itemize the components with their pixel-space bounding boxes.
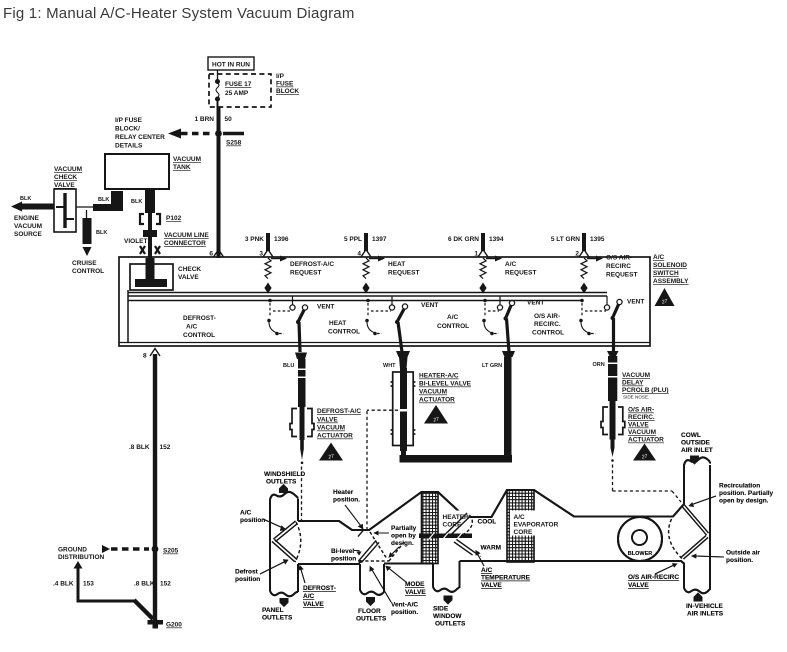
svg-text:VACUUM: VACUUM — [14, 223, 42, 230]
heater position label — [333, 489, 360, 504]
vacuum rails — [128, 292, 607, 294]
svg-text:SWITCH: SWITCH — [653, 270, 679, 277]
svg-text:A/C: A/C — [240, 510, 252, 517]
svg-text:6: 6 — [209, 251, 213, 258]
svg-text:VACUUM: VACUUM — [419, 389, 447, 396]
bi-level position label — [331, 548, 356, 563]
svg-text:ASSEMBLY: ASSEMBLY — [653, 278, 689, 285]
duct main channel bottom outline — [298, 561, 684, 588]
svg-text:4: 4 — [357, 251, 361, 258]
a/c evaporator core — [507, 490, 534, 562]
vent-a/c position label — [391, 602, 418, 617]
svg-text:VACUUM LINE: VACUUM LINE — [164, 232, 209, 239]
svg-text:OUTLETS: OUTLETS — [262, 615, 293, 622]
panel outlets label — [262, 607, 293, 622]
svg-text:A/C: A/C — [186, 324, 198, 331]
svg-text:REQUEST: REQUEST — [606, 272, 637, 279]
evaporator label — [510, 511, 559, 537]
splice S205 — [152, 546, 159, 553]
svg-text:3 PNK: 3 PNK — [245, 236, 264, 243]
svg-text:VALVE: VALVE — [628, 422, 649, 429]
svg-text:BLK: BLK — [131, 199, 142, 205]
svg-text:VALVE: VALVE — [481, 582, 502, 589]
I/P fuse block label — [276, 73, 299, 95]
warning triangle (bi-level actuator) — [424, 405, 448, 424]
svg-text:DEFROST-A/C: DEFROST-A/C — [317, 408, 361, 415]
svg-text:position: position — [240, 517, 265, 524]
svg-text:SOURCE: SOURCE — [14, 231, 42, 238]
mode valve doors — [358, 530, 404, 564]
solenoid coil DEFROST-A/C REQUEST — [264, 256, 287, 294]
o/s air-recirc valve label — [628, 574, 679, 589]
svg-text:WINDOW: WINDOW — [433, 613, 462, 620]
heater core — [422, 492, 439, 564]
svg-text:2: 2 — [575, 251, 579, 258]
heater-a/c door lines — [444, 513, 473, 538]
wire 5 LT GRN 1395 — [579, 233, 589, 257]
wire check valve to rails — [127, 290, 129, 343]
svg-text:FUSE 17: FUSE 17 — [225, 81, 252, 88]
svg-text:BLK: BLK — [96, 230, 107, 236]
svg-text:BLOWER: BLOWER — [628, 551, 652, 557]
svg-text:HEAT: HEAT — [329, 320, 346, 327]
switch HEAT control — [365, 296, 407, 352]
svg-text:DEFROST-: DEFROST- — [303, 585, 336, 592]
heater core — [422, 492, 439, 564]
check valve (inside box) — [130, 258, 173, 290]
svg-text:CONNECTOR: CONNECTOR — [164, 240, 206, 247]
svg-text:CONTROL: CONTROL — [532, 330, 564, 337]
solenoid coil O/S AIR- RECIRC — [580, 256, 603, 294]
svg-text:.8 BLK: .8 BLK — [129, 444, 150, 451]
defrost-a/c valve label — [303, 585, 336, 608]
svg-text:open by: open by — [391, 533, 416, 540]
svg-text:Defrost: Defrost — [235, 569, 259, 576]
vacuum tank — [105, 154, 169, 189]
switch A/C control — [482, 296, 514, 352]
svg-text:152: 152 — [160, 444, 171, 451]
svg-text:3: 3 — [259, 251, 263, 258]
warm door lines — [454, 540, 481, 557]
svg-text:SIDE NOSE.: SIDE NOSE. — [623, 395, 649, 400]
a/c evaporator core — [507, 490, 534, 562]
svg-text:.8 BLK: .8 BLK — [134, 581, 155, 588]
duct: windshield/panel outlet pipe — [270, 492, 298, 596]
blower — [618, 517, 662, 561]
warning triangle (defrost actuator) — [319, 443, 343, 461]
hose BLU — [283, 353, 307, 408]
svg-text:CHECK: CHECK — [178, 266, 201, 273]
side window outlet pipe — [433, 561, 460, 592]
svg-text:1397: 1397 — [372, 236, 387, 243]
ground distribution arrow — [58, 545, 149, 561]
svg-text:S205: S205 — [163, 548, 179, 555]
svg-text:WARM: WARM — [481, 545, 502, 552]
engine vacuum source arrow — [11, 196, 54, 212]
svg-text:IN-VEHICLE: IN-VEHICLE — [686, 603, 724, 610]
panel outlets label — [262, 607, 293, 622]
svg-text:OUTLETS: OUTLETS — [356, 616, 387, 623]
cool / warm labels — [478, 519, 502, 552]
svg-text:position: position — [235, 576, 260, 583]
svg-text:CONTROL: CONTROL — [72, 268, 104, 275]
svg-text:HOT IN RUN: HOT IN RUN — [212, 62, 250, 69]
hose ORN — [593, 351, 619, 368]
svg-text:SOLENOID: SOLENOID — [653, 262, 687, 269]
o/s air-recirc doors — [669, 505, 709, 560]
wire .8 BLK 152 — [129, 444, 171, 451]
svg-text:AIR INLET: AIR INLET — [681, 447, 713, 454]
hose elbow to LT GRN — [400, 351, 516, 463]
switch DEFROST- control — [267, 296, 307, 352]
blower — [618, 517, 662, 561]
pentagon arrow down (panel) — [280, 598, 289, 607]
solenoid coil A/C REQUEST — [479, 256, 502, 294]
splice S258 — [215, 130, 222, 137]
svg-text:P102: P102 — [166, 215, 182, 222]
svg-text:VALVE: VALVE — [628, 582, 649, 589]
windshield outlets label — [264, 471, 305, 486]
svg-text:Outside air: Outside air — [726, 550, 760, 557]
svg-text:ORN: ORN — [593, 362, 605, 368]
svg-text:ACTUATOR: ACTUATOR — [317, 433, 353, 440]
svg-text:VENT: VENT — [627, 299, 644, 306]
cruise control branch — [83, 210, 108, 256]
warning triangle (assembly) — [655, 288, 675, 306]
svg-text:CONTROL: CONTROL — [437, 323, 469, 330]
svg-text:I/P FUSE: I/P FUSE — [115, 117, 143, 124]
svg-text:DEFROST-: DEFROST- — [183, 315, 216, 322]
svg-text:RELAY CENTER: RELAY CENTER — [115, 134, 165, 141]
svg-text:BLU: BLU — [283, 363, 294, 369]
svg-text:position. Partially: position. Partially — [719, 490, 774, 497]
pin 8 ground wire — [143, 349, 160, 621]
svg-text:VENT: VENT — [317, 304, 334, 311]
heater-a/c bi-level valve vacuum actuator — [391, 368, 416, 451]
svg-text:TANK: TANK — [173, 164, 191, 171]
svg-text:VALVE: VALVE — [54, 182, 75, 189]
recirculation position label — [719, 483, 774, 505]
svg-text:ACTUATOR: ACTUATOR — [419, 397, 455, 404]
cool / warm labels — [478, 519, 502, 552]
vacuum delay valve — [608, 356, 618, 401]
duct main channel top outline — [298, 465, 684, 531]
svg-text:RECIRC.: RECIRC. — [628, 414, 655, 421]
svg-text:VACUUM: VACUUM — [628, 429, 656, 436]
mode valve label — [405, 581, 426, 596]
svg-text:6 DK GRN: 6 DK GRN — [448, 236, 479, 243]
cowl outside air inlet label — [681, 432, 713, 454]
in-vehicle air inlets label — [686, 603, 724, 618]
svg-text:DELAY: DELAY — [622, 380, 644, 387]
defrost-a/c valve doors — [272, 521, 301, 562]
a/c position label — [240, 510, 265, 525]
svg-text:50: 50 — [225, 116, 233, 123]
vacuum check valve — [54, 189, 76, 232]
hose WHT — [383, 351, 410, 369]
wire 6 DK GRN 1394 — [478, 233, 488, 257]
I/P fuse block relay center details label — [115, 117, 165, 150]
recirculation position label — [719, 483, 774, 505]
svg-text:WHT: WHT — [383, 363, 396, 369]
svg-text:MODE: MODE — [405, 581, 425, 588]
a/c temperature valve bar — [419, 533, 472, 539]
pentagon arrow up (windshield) — [279, 484, 288, 493]
svg-text:CHECK: CHECK — [54, 174, 77, 181]
svg-text:A/C: A/C — [447, 314, 459, 321]
svg-text:BI-LEVEL VALVE: BI-LEVEL VALVE — [419, 381, 472, 388]
ground G200 — [148, 620, 183, 629]
svg-text:I/P: I/P — [276, 73, 285, 80]
wire .8 BLK 152 (lower) — [134, 581, 171, 588]
svg-text:DISTRIBUTION: DISTRIBUTION — [58, 554, 105, 561]
inner bottom rail — [119, 342, 650, 344]
svg-text:EVAPORATOR: EVAPORATOR — [514, 522, 559, 529]
svg-text:ACTUATOR: ACTUATOR — [628, 437, 664, 444]
dashed link bi-level to mode valve — [367, 410, 398, 533]
svg-text:BLK: BLK — [20, 196, 31, 202]
partially open by design label — [391, 525, 417, 547]
o/s air-recirc doors — [669, 505, 709, 560]
svg-text:SIDE: SIDE — [433, 606, 449, 613]
wire 1 BRN 50 — [217, 107, 221, 258]
connector P102 — [140, 214, 160, 237]
solenoid coil HEAT REQUEST — [362, 256, 385, 294]
o/s air-recirc valve label — [628, 574, 679, 589]
dashed arrow to relay center — [168, 129, 244, 139]
svg-text:FLOOR: FLOOR — [358, 608, 381, 615]
svg-text:.4 BLK: .4 BLK — [53, 581, 74, 588]
bi-level position label — [331, 548, 356, 563]
a/c temperature valve label — [481, 567, 531, 589]
in-vehicle air inlet pipe (right) — [684, 457, 710, 593]
svg-text:O/S AIR-: O/S AIR- — [606, 255, 632, 262]
svg-text:design.: design. — [391, 540, 414, 547]
defrost-a/c valve vacuum actuator — [290, 407, 314, 464]
wire 3 PNK 1396 — [263, 233, 273, 257]
svg-text:VACUUM: VACUUM — [317, 425, 345, 432]
duct: windshield/panel outlet pipe — [270, 492, 298, 596]
a/c position label — [240, 510, 265, 525]
svg-text:position: position — [331, 556, 356, 563]
floor outlet pipe — [360, 564, 384, 595]
svg-text:OUTLETS: OUTLETS — [266, 479, 297, 486]
heater-a/c door lines — [444, 513, 473, 538]
svg-text:Recirculation: Recirculation — [719, 483, 760, 490]
hot in run box — [208, 57, 254, 70]
svg-text:BLK: BLK — [98, 197, 109, 203]
svg-text:153: 153 — [83, 581, 94, 588]
defrost-a/c valve doors — [272, 521, 301, 562]
svg-text:position.: position. — [726, 557, 753, 564]
svg-text:OUTLETS: OUTLETS — [435, 621, 466, 628]
svg-text:A/C: A/C — [303, 593, 315, 600]
svg-text:DETAILS: DETAILS — [115, 143, 143, 150]
svg-text:RECIRC: RECIRC — [606, 263, 631, 270]
svg-text:position.: position. — [391, 609, 418, 616]
pentagon arrow down (panel) — [280, 598, 289, 607]
svg-text:CONTROL: CONTROL — [328, 329, 360, 336]
svg-text:REQUEST: REQUEST — [505, 270, 536, 277]
svg-text:O/S AIR-: O/S AIR- — [534, 313, 560, 320]
cowl outside air inlet label — [681, 432, 713, 454]
svg-text:TEMPERATURE: TEMPERATURE — [481, 575, 531, 582]
svg-text:AIR INLETS: AIR INLETS — [687, 611, 724, 618]
svg-text:1396: 1396 — [274, 236, 289, 243]
duct main channel bottom outline — [298, 561, 684, 588]
outside air position label — [726, 550, 760, 565]
svg-text:VALVE: VALVE — [405, 589, 426, 596]
heater position label — [333, 489, 360, 504]
mode valve label — [405, 581, 426, 596]
svg-text:8: 8 — [143, 353, 147, 360]
pin 6 BRN — [214, 250, 224, 258]
svg-text:Bi-level: Bi-level — [331, 548, 354, 555]
o/s air-recirc valve vacuum actuator — [601, 401, 625, 462]
svg-text:LT GRN: LT GRN — [482, 363, 502, 369]
outside air position label — [726, 550, 760, 565]
svg-text:5 LT GRN: 5 LT GRN — [551, 236, 580, 243]
vent-a/c position label — [391, 602, 418, 617]
warm door lines — [454, 540, 481, 557]
svg-text:open by design.: open by design. — [719, 498, 769, 505]
wire 5 PPL 1397 — [361, 233, 371, 257]
assembly label — [653, 254, 689, 285]
svg-text:S258: S258 — [226, 140, 242, 147]
svg-text:CONTROL: CONTROL — [183, 332, 215, 339]
svg-text:RECIRC.: RECIRC. — [534, 321, 561, 328]
fuse F17 25A — [216, 70, 220, 107]
side window outlet pipe — [433, 561, 460, 592]
svg-text:COWL: COWL — [681, 432, 701, 439]
svg-text:PCROLB (PLU): PCROLB (PLU) — [622, 387, 669, 394]
svg-text:DEFROST-A/C: DEFROST-A/C — [290, 261, 334, 268]
duct main channel top outline — [298, 465, 684, 531]
fuse value label — [225, 81, 252, 97]
svg-text:COOL: COOL — [478, 519, 497, 526]
in-vehicle air inlets label — [686, 603, 724, 618]
svg-text:HEAT: HEAT — [388, 261, 405, 268]
partially open by design label — [391, 525, 417, 547]
svg-text:A/C: A/C — [653, 254, 665, 261]
svg-text:CRUISE: CRUISE — [72, 260, 97, 267]
svg-text:VACUUM: VACUUM — [622, 372, 650, 379]
svg-text:A/C: A/C — [514, 514, 526, 521]
A/C solenoid switch assembly box — [119, 257, 650, 346]
a/c temperature valve label — [481, 567, 531, 589]
tank output wire BLK — [131, 189, 155, 258]
svg-text:Partially: Partially — [391, 525, 417, 532]
svg-text:VENT: VENT — [421, 302, 438, 309]
svg-text:1: 1 — [474, 251, 478, 258]
a/c temperature valve bar — [419, 533, 472, 539]
svg-text:O/S AIR-: O/S AIR- — [628, 407, 654, 414]
svg-text:G200: G200 — [166, 622, 182, 629]
heater core label — [441, 511, 470, 529]
svg-text:OUTSIDE: OUTSIDE — [681, 440, 711, 447]
svg-text:VALVE: VALVE — [178, 274, 199, 281]
svg-text:VACUUM: VACUUM — [173, 156, 201, 163]
svg-text:A/C: A/C — [505, 261, 517, 268]
svg-text:A/C: A/C — [481, 567, 493, 574]
svg-text:VALVE: VALVE — [303, 601, 324, 608]
svg-text:Heater: Heater — [333, 489, 354, 496]
floor outlet pipe — [360, 564, 384, 595]
svg-text:1394: 1394 — [489, 236, 504, 243]
branch wire .4 BLK 153 — [74, 561, 154, 619]
dashed link recirc actuator to duct — [613, 465, 682, 503]
defrost-a/c valve label — [303, 585, 336, 608]
svg-text:BLOCK/: BLOCK/ — [115, 126, 140, 133]
svg-text:position.: position. — [333, 497, 360, 504]
svg-text:VALVE: VALVE — [317, 417, 338, 424]
pentagon arrow up (windshield) — [279, 484, 288, 493]
svg-text:25 AMP: 25 AMP — [225, 90, 249, 97]
defrost position label — [235, 569, 260, 584]
dashed link to duct — [301, 467, 303, 521]
svg-text:1 BRN: 1 BRN — [194, 116, 214, 123]
vacuum line connector — [140, 246, 160, 254]
svg-text:REQUEST: REQUEST — [290, 270, 321, 277]
svg-text:FUSE: FUSE — [276, 81, 294, 88]
defrost position label — [235, 569, 260, 584]
switch O/S AIR- control — [579, 296, 622, 352]
svg-text:5 PPL: 5 PPL — [344, 236, 362, 243]
svg-text:PANEL: PANEL — [262, 607, 284, 614]
wire check valve to tank elbow — [76, 191, 123, 211]
heater core label — [441, 511, 470, 529]
svg-text:CORE: CORE — [514, 529, 533, 536]
svg-text:WINDSHIELD: WINDSHIELD — [264, 471, 305, 478]
svg-text:VACUUM: VACUUM — [54, 166, 82, 173]
svg-text:HEATER-A/C: HEATER-A/C — [419, 373, 459, 380]
warning triangle (recirc actuator) — [633, 444, 656, 461]
windshield outlets label — [264, 471, 305, 486]
svg-text:ENGINE: ENGINE — [14, 215, 40, 222]
svg-text:152: 152 — [160, 581, 171, 588]
svg-text:BLOCK: BLOCK — [276, 88, 299, 95]
in-vehicle air inlet pipe (right) — [684, 457, 710, 593]
svg-text:Vent-A/C: Vent-A/C — [391, 602, 418, 609]
fuse block dashed box — [209, 74, 271, 107]
evaporator label — [510, 511, 559, 537]
svg-text:1395: 1395 — [590, 236, 605, 243]
svg-text:VENT: VENT — [527, 300, 544, 307]
svg-text:O/S AIR-RECIRC: O/S AIR-RECIRC — [628, 574, 679, 581]
svg-text:GROUND: GROUND — [58, 547, 87, 554]
svg-text:VIOLET: VIOLET — [124, 238, 148, 245]
svg-text:REQUEST: REQUEST — [388, 270, 419, 277]
mode valve doors — [358, 530, 404, 564]
